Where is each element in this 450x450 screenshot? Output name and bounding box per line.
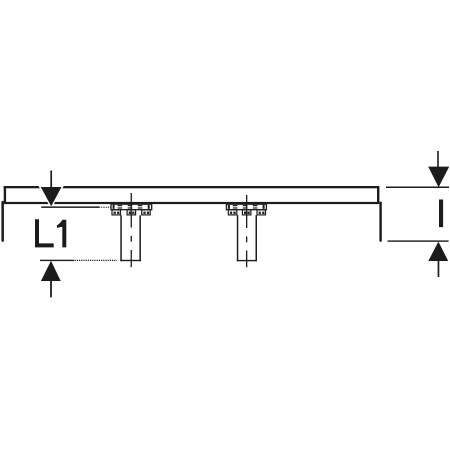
dimension L1 label [35, 219, 66, 247]
dimension L1 top arrow [41, 187, 62, 206]
dimension L1 top reference line solid [41, 206, 99, 208]
bracket 2 fastening plate [226, 204, 266, 210]
bracket 1 leg tube left wall [120, 215, 122, 261]
channel profile top line [4, 186, 379, 188]
dimension I label [439, 200, 443, 228]
dimension L1 bottom reference line solid [40, 260, 74, 261]
bracket 1 fastening plate [111, 204, 152, 210]
channel left end flange [1, 201, 4, 242]
dimension I bottom stem [438, 261, 440, 277]
bracket 2 leg tube right wall [256, 215, 258, 261]
dimension L1 bottom reference line dotted [75, 259, 117, 261]
dimension I top stem [437, 151, 439, 168]
bracket 2 leg tube left wall [237, 215, 239, 261]
bracket 1 right foot [142, 210, 151, 215]
bracket 2 leg tube bottom edge [237, 260, 257, 261]
bracket 2 left foot [228, 210, 237, 215]
channel profile bottom line [5, 202, 377, 204]
channel left end cap [4, 186, 6, 204]
white halo around L1 top arrow where it crosses the profile lines [41, 187, 62, 206]
dimension L1 bottom arrow [41, 261, 61, 281]
dimension I bottom arrow [428, 242, 448, 261]
channel right end cap [377, 186, 379, 204]
channel right end flange [379, 202, 381, 242]
dimension L1 top reference line dotted [99, 206, 112, 208]
bracket 1 centerline [131, 193, 132, 267]
bracket 1 left foot [112, 210, 121, 215]
bracket 1 middle foot [127, 210, 136, 215]
bracket 2 centerline [246, 195, 247, 267]
bracket 2 plate slots [228, 205, 265, 209]
bracket 2 right foot [257, 210, 266, 215]
bracket 1 plate slots [113, 205, 150, 209]
dimension I bottom extension line [388, 240, 449, 241]
dimension I top arrow [428, 167, 449, 188]
bracket 1 leg tube right wall [139, 215, 141, 261]
bracket 1 leg tube bottom edge [120, 260, 141, 261]
bracket 2 middle foot [242, 210, 251, 215]
dimension I top extension line [386, 187, 449, 189]
dimension L1 top stem [50, 171, 52, 189]
dimension L1 bottom stem [50, 281, 52, 297]
